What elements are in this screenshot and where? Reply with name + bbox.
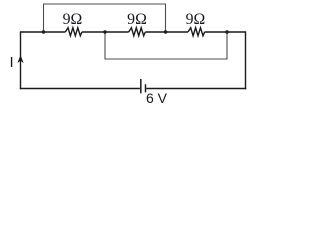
- battery 6V short plate: [145, 84, 147, 92]
- node dot D (inner loop right tap): [225, 30, 228, 33]
- node dot A (top-left tap): [42, 30, 45, 33]
- wire bottom rail left of battery: [20, 88, 140, 90]
- current arrow head (up): [17, 55, 23, 63]
- svg-text:9Ω: 9Ω: [63, 11, 83, 28]
- wire inner loop (left vertical, bottom, right vertical): [105, 33, 227, 60]
- svg-text:9Ω: 9Ω: [127, 11, 147, 28]
- battery 6V long plate: [140, 79, 142, 93]
- wire left outer vertical: [20, 31, 22, 89]
- node dot C (top rail right tap): [164, 30, 167, 33]
- resistor R1 9Ω zigzag: [65, 28, 82, 36]
- resistor R2 9Ω zigzag: [129, 28, 146, 36]
- wire middle rail R1 to R2: [82, 31, 129, 33]
- wire top rail: [44, 4, 166, 32]
- node dot B (inner loop left tap): [103, 30, 106, 33]
- svg-text:I: I: [10, 54, 14, 71]
- resistor R3 9Ω zigzag: [188, 28, 205, 36]
- wire middle rail segment left end to R1: [21, 31, 66, 33]
- wire middle rail R3 to right corner: [205, 31, 246, 33]
- wire bottom rail right of battery: [146, 88, 246, 90]
- svg-text:9Ω: 9Ω: [186, 11, 206, 28]
- svg-text:6 V: 6 V: [146, 90, 168, 106]
- wire right outer vertical: [245, 31, 247, 89]
- wire middle rail R2 to R3: [145, 31, 188, 33]
